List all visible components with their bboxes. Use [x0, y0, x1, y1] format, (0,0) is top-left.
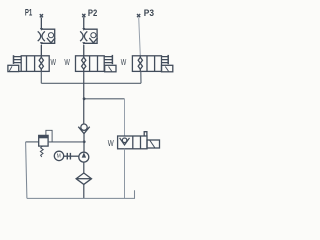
svg-text:P3: P3 — [144, 8, 154, 18]
svg-text:M: M — [57, 154, 61, 160]
svg-text:W: W — [51, 58, 57, 67]
svg-text:W: W — [108, 139, 114, 148]
svg-text:P2: P2 — [88, 8, 97, 18]
svg-text:P1: P1 — [25, 8, 32, 18]
svg-text:W: W — [121, 58, 127, 67]
svg-text:W: W — [64, 58, 70, 67]
